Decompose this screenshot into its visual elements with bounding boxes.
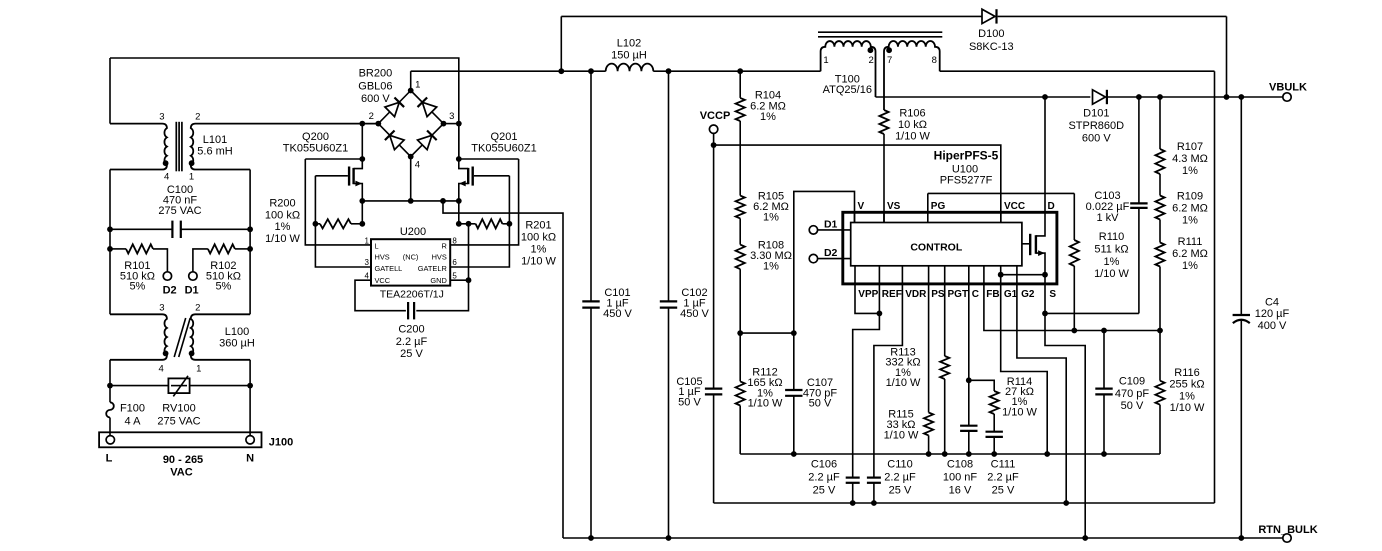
svg-text:BR200: BR200 bbox=[359, 68, 393, 80]
svg-text:J100: J100 bbox=[269, 436, 293, 448]
pin VS bbox=[883, 212, 885, 222]
svg-text:D2: D2 bbox=[824, 247, 838, 259]
svg-text:450 V: 450 V bbox=[680, 308, 709, 320]
svg-text:1: 1 bbox=[415, 80, 420, 91]
svg-text:R106: R106 bbox=[899, 108, 925, 120]
wire RTN_BULK rail bbox=[563, 537, 1283, 539]
resistor R116 bbox=[1159, 331, 1161, 381]
svg-text:D1: D1 bbox=[185, 285, 199, 297]
svg-text:L100: L100 bbox=[225, 326, 249, 338]
svg-text:5%: 5% bbox=[129, 281, 145, 293]
svg-text:3: 3 bbox=[159, 112, 164, 123]
resistor R201 bbox=[458, 201, 460, 224]
svg-text:1%: 1% bbox=[1182, 260, 1198, 272]
wire top-left rail bbox=[110, 58, 459, 159]
svg-text:VAC: VAC bbox=[170, 467, 192, 479]
svg-text:CONTROL: CONTROL bbox=[910, 241, 962, 253]
resistor R110 bbox=[1073, 193, 1075, 240]
svg-text:6: 6 bbox=[452, 258, 457, 267]
bridge rectifier BR200 bbox=[378, 91, 443, 157]
svg-text:PG: PG bbox=[931, 201, 946, 212]
svg-text:2.2 µF: 2.2 µF bbox=[808, 472, 840, 484]
svg-text:R200: R200 bbox=[269, 198, 295, 210]
pin REF bbox=[853, 266, 880, 478]
resistor R106 bbox=[879, 110, 888, 134]
svg-text:4: 4 bbox=[164, 171, 169, 182]
svg-text:1%: 1% bbox=[763, 261, 779, 273]
svg-text:1/10 W: 1/10 W bbox=[1002, 406, 1037, 418]
IC U100 control block bbox=[851, 223, 1022, 266]
wire S snubber row bbox=[1045, 312, 1139, 314]
resistor R114 + capacitor C111 bbox=[969, 380, 994, 391]
svg-text:G2: G2 bbox=[1021, 289, 1035, 300]
svg-text:120 µF: 120 µF bbox=[1255, 308, 1290, 320]
svg-text:1%: 1% bbox=[1182, 215, 1198, 227]
terminal RTN_BULK bbox=[1283, 534, 1291, 542]
svg-text:1: 1 bbox=[823, 55, 828, 66]
wire rail T100 pin8 to right column bbox=[940, 70, 1215, 72]
svg-text:L102: L102 bbox=[617, 38, 641, 50]
wire VCCP rail to VCC pin bbox=[714, 145, 1001, 222]
svg-text:16 V: 16 V bbox=[949, 485, 972, 497]
wire Q200 pin-L column bbox=[305, 159, 371, 245]
wire Q201 gate column to GATELR bbox=[450, 176, 509, 267]
mosfet inside U100 bbox=[1036, 97, 1045, 236]
svg-text:3: 3 bbox=[365, 258, 370, 267]
terminal D2 (left) bbox=[163, 272, 171, 280]
svg-text:8: 8 bbox=[452, 236, 457, 245]
svg-text:50 V: 50 V bbox=[1121, 400, 1144, 412]
capacitor C105 bbox=[713, 145, 715, 389]
svg-text:Q201: Q201 bbox=[491, 131, 518, 143]
wire V pin path bbox=[794, 191, 855, 333]
svg-text:1: 1 bbox=[365, 236, 370, 245]
svg-text:2: 2 bbox=[195, 112, 200, 123]
svg-text:TK055U60Z1: TK055U60Z1 bbox=[471, 143, 536, 155]
svg-text:VCCP: VCCP bbox=[700, 110, 731, 122]
pin VPP bbox=[855, 266, 879, 314]
pin VDR bbox=[874, 266, 903, 478]
inductor L101 bbox=[110, 124, 167, 170]
svg-text:R: R bbox=[441, 242, 446, 251]
svg-text:R116: R116 bbox=[1174, 367, 1199, 379]
svg-text:1%: 1% bbox=[531, 243, 547, 255]
svg-text:TEA2206T/1J: TEA2206T/1J bbox=[380, 289, 444, 301]
resistor R102 bbox=[235, 248, 250, 250]
wire T100 pin2 to VBULK branch bbox=[876, 96, 1091, 98]
pin S bbox=[1045, 284, 1085, 538]
svg-text:25 V: 25 V bbox=[992, 485, 1015, 497]
svg-text:C110: C110 bbox=[887, 459, 912, 471]
svg-text:R201: R201 bbox=[525, 219, 551, 231]
svg-text:4.3 MΩ: 4.3 MΩ bbox=[1172, 153, 1208, 165]
transformer T100 bbox=[821, 41, 876, 97]
svg-text:450 V: 450 V bbox=[603, 308, 632, 320]
wire rectified rail bbox=[411, 70, 606, 72]
svg-text:2: 2 bbox=[369, 111, 374, 122]
wire U200 VCC to C200 bbox=[355, 280, 406, 311]
svg-text:150 µH: 150 µH bbox=[611, 49, 647, 61]
svg-text:400 V: 400 V bbox=[1258, 320, 1287, 332]
svg-text:6.2 MΩ: 6.2 MΩ bbox=[1172, 248, 1208, 260]
svg-text:275 VAC: 275 VAC bbox=[158, 205, 201, 217]
wire left AC branch to L101 pin 3 bbox=[109, 58, 111, 124]
terminal D1 bbox=[809, 226, 817, 234]
svg-text:100 kΩ: 100 kΩ bbox=[521, 231, 556, 243]
inductor L102 bbox=[606, 64, 654, 72]
svg-text:PGT: PGT bbox=[948, 289, 969, 300]
svg-text:470 pF: 470 pF bbox=[1115, 388, 1150, 400]
resistor R104 bbox=[739, 71, 741, 98]
svg-text:5%: 5% bbox=[215, 281, 231, 293]
svg-text:1 kV: 1 kV bbox=[1096, 212, 1119, 224]
svg-text:D: D bbox=[1048, 201, 1055, 212]
svg-text:C109: C109 bbox=[1119, 376, 1145, 388]
capacitor C103 bbox=[1138, 97, 1140, 203]
svg-text:511 kΩ: 511 kΩ bbox=[1094, 243, 1128, 255]
pin V bbox=[854, 212, 856, 222]
svg-text:4 A: 4 A bbox=[125, 415, 142, 427]
svg-text:100 kΩ: 100 kΩ bbox=[265, 209, 300, 221]
svg-text:50 V: 50 V bbox=[678, 397, 701, 409]
pin FB bbox=[984, 266, 1160, 331]
resistor R109 bbox=[1159, 174, 1161, 196]
wire top rail bbox=[561, 15, 981, 17]
svg-text:5.6 mH: 5.6 mH bbox=[197, 146, 233, 158]
capacitor C106 bbox=[846, 477, 860, 479]
svg-text:N: N bbox=[246, 453, 254, 465]
svg-text:VDR: VDR bbox=[905, 289, 927, 300]
svg-text:Q200: Q200 bbox=[302, 131, 329, 143]
svg-text:S: S bbox=[1049, 289, 1056, 300]
svg-text:255 kΩ: 255 kΩ bbox=[1169, 379, 1204, 391]
capacitor C200 bbox=[407, 302, 409, 319]
svg-text:ATQ25/16: ATQ25/16 bbox=[823, 84, 872, 96]
capacitor C108 bbox=[966, 377, 972, 383]
svg-text:90 - 265: 90 - 265 bbox=[163, 454, 203, 466]
transistor Q201 bbox=[456, 156, 462, 162]
svg-text:GATELL: GATELL bbox=[375, 264, 403, 273]
svg-text:L: L bbox=[375, 242, 379, 251]
svg-text:U200: U200 bbox=[400, 226, 426, 238]
node V sense tap bbox=[740, 332, 794, 334]
svg-text:VBULK: VBULK bbox=[1269, 82, 1307, 94]
mid return rail dots bbox=[850, 500, 856, 506]
svg-text:F100: F100 bbox=[120, 403, 145, 415]
svg-text:1/10 W: 1/10 W bbox=[895, 131, 930, 143]
svg-text:C: C bbox=[972, 289, 979, 300]
pin PS bbox=[928, 266, 930, 413]
svg-text:C111: C111 bbox=[991, 459, 1016, 471]
resistor R111 bbox=[1159, 220, 1161, 243]
svg-text:1/10 W: 1/10 W bbox=[1170, 402, 1205, 414]
svg-text:1: 1 bbox=[196, 364, 201, 375]
svg-text:D1: D1 bbox=[824, 218, 838, 230]
svg-text:STPR860D: STPR860D bbox=[1068, 120, 1124, 132]
wire D101 cathode to VBULK terminal bbox=[1108, 96, 1283, 98]
svg-text:L101: L101 bbox=[203, 134, 227, 146]
svg-text:50 V: 50 V bbox=[809, 398, 832, 410]
svg-text:4: 4 bbox=[415, 160, 420, 171]
svg-text:C200: C200 bbox=[398, 324, 424, 336]
svg-text:HiperPFS-5: HiperPFS-5 bbox=[934, 149, 999, 163]
wire BR200 pin4 down bbox=[410, 157, 412, 201]
svg-text:1%: 1% bbox=[275, 221, 291, 233]
svg-text:VCC: VCC bbox=[1004, 201, 1025, 212]
svg-text:RTN_BULK: RTN_BULK bbox=[1258, 524, 1317, 536]
svg-text:1: 1 bbox=[189, 171, 194, 182]
svg-text:6.2 MΩ: 6.2 MΩ bbox=[1172, 203, 1208, 215]
svg-text:2: 2 bbox=[869, 55, 874, 66]
wire U200 GND to C200 bbox=[450, 279, 468, 281]
wire left vertical L101 pin4 to L100 pin3 bbox=[109, 170, 111, 315]
svg-text:VPP: VPP bbox=[858, 289, 878, 300]
IC U100 outline bbox=[843, 212, 1057, 284]
svg-text:100 nF: 100 nF bbox=[943, 472, 978, 484]
svg-text:D100: D100 bbox=[978, 28, 1004, 40]
diode BR200 bottom-right bbox=[418, 135, 432, 149]
svg-text:V: V bbox=[858, 201, 865, 212]
varistor RV100 bbox=[110, 385, 250, 387]
capacitor C110 bbox=[867, 477, 881, 479]
capacitor C101 bbox=[590, 71, 592, 301]
svg-text:2.2 µF: 2.2 µF bbox=[396, 336, 428, 348]
svg-text:1%: 1% bbox=[760, 111, 776, 123]
fuse F100 bbox=[106, 402, 114, 417]
diode BR200 bottom-left bbox=[390, 135, 404, 149]
svg-text:D101: D101 bbox=[1083, 108, 1109, 120]
svg-text:1%: 1% bbox=[1179, 390, 1195, 402]
svg-text:GATELR: GATELR bbox=[418, 264, 447, 273]
svg-text:1%: 1% bbox=[763, 212, 779, 224]
svg-text:600 V: 600 V bbox=[1082, 132, 1111, 144]
diode D101 bbox=[1093, 90, 1106, 104]
diode BR200 top-right bbox=[422, 102, 436, 116]
svg-text:4: 4 bbox=[365, 271, 370, 280]
diode BR200 top-left bbox=[385, 102, 399, 116]
svg-text:1%: 1% bbox=[1182, 165, 1198, 177]
svg-text:(NC): (NC) bbox=[403, 252, 419, 261]
terminal D1 (left) bbox=[189, 272, 197, 280]
svg-text:4: 4 bbox=[159, 364, 164, 375]
svg-text:G1: G1 bbox=[1004, 289, 1018, 300]
svg-text:1/10 W: 1/10 W bbox=[521, 255, 556, 267]
connector J100 bbox=[99, 432, 261, 447]
svg-text:5: 5 bbox=[452, 271, 457, 280]
svg-text:1/10 W: 1/10 W bbox=[884, 429, 919, 441]
wire ground rail (signal) bbox=[740, 453, 1160, 455]
pin C bbox=[968, 266, 970, 426]
svg-text:HVS: HVS bbox=[432, 252, 447, 261]
pin G2 bbox=[1017, 266, 1066, 503]
capacitor C107 bbox=[793, 333, 795, 390]
terminal VCCP bbox=[709, 125, 717, 133]
svg-text:TK055U60Z1: TK055U60Z1 bbox=[283, 143, 348, 155]
svg-text:7: 7 bbox=[887, 55, 892, 66]
svg-text:D2: D2 bbox=[163, 285, 177, 297]
svg-text:C4: C4 bbox=[1265, 296, 1279, 308]
svg-text:REF: REF bbox=[882, 289, 902, 300]
wire Q201 pin-R column bbox=[450, 159, 518, 245]
svg-text:2.2 µF: 2.2 µF bbox=[884, 472, 916, 484]
pin PGT bbox=[944, 266, 946, 356]
svg-text:3: 3 bbox=[159, 303, 164, 314]
svg-text:GBL06: GBL06 bbox=[358, 80, 392, 92]
inductor L100 bbox=[110, 314, 167, 360]
resistor R108 bbox=[739, 218, 741, 244]
node source row bbox=[362, 200, 459, 202]
pin PG bbox=[927, 193, 929, 222]
ground rail dots bbox=[791, 451, 797, 457]
resistor R200 bbox=[313, 221, 319, 227]
wire Q200 gate column to GATELL bbox=[315, 176, 371, 267]
svg-text:RV100: RV100 bbox=[162, 403, 195, 415]
capacitor C100 bbox=[110, 228, 172, 230]
wire AC-side return loop bbox=[714, 502, 1215, 504]
svg-text:VCC: VCC bbox=[375, 276, 391, 285]
svg-text:25 V: 25 V bbox=[889, 485, 912, 497]
svg-text:3: 3 bbox=[449, 111, 454, 122]
resistor R107 bbox=[1159, 97, 1161, 149]
diode D100 bbox=[982, 9, 995, 23]
wire VS column bbox=[883, 134, 885, 223]
svg-text:25 V: 25 V bbox=[813, 485, 836, 497]
wire L100 pin1 down-right bbox=[249, 360, 251, 436]
wire PG pullup row bbox=[928, 192, 1075, 194]
wire top rail right drop to VBULK bbox=[1226, 16, 1228, 97]
wire top rail left riser bbox=[560, 16, 562, 71]
wire BR200 pin3 to right column bbox=[444, 123, 459, 125]
svg-text:PS: PS bbox=[931, 289, 945, 300]
capacitor C109 bbox=[1103, 331, 1105, 389]
capacitor C4 bbox=[1240, 97, 1242, 315]
wire L100 pin4 down-left bbox=[109, 360, 111, 403]
wire BR200 pin1 riser bbox=[410, 71, 412, 90]
svg-text:R111: R111 bbox=[1178, 236, 1203, 248]
svg-text:L: L bbox=[106, 453, 113, 465]
IC U200 bbox=[371, 239, 450, 285]
svg-text:R110: R110 bbox=[1099, 231, 1124, 243]
svg-text:1/10 W: 1/10 W bbox=[886, 377, 921, 389]
svg-text:VS: VS bbox=[887, 201, 901, 212]
svg-text:HVS: HVS bbox=[375, 252, 390, 261]
svg-text:10 kΩ: 10 kΩ bbox=[898, 119, 927, 131]
svg-text:2: 2 bbox=[195, 303, 200, 314]
pin G1 bbox=[1001, 266, 1047, 454]
wire bridge negative jog bbox=[443, 201, 563, 538]
svg-text:1/10 W: 1/10 W bbox=[748, 398, 783, 410]
terminal VBULK bbox=[1283, 93, 1291, 101]
resistor R101 bbox=[110, 248, 126, 250]
terminal D2 bbox=[809, 254, 817, 262]
svg-text:275 VAC: 275 VAC bbox=[157, 415, 200, 427]
svg-text:1/10 W: 1/10 W bbox=[265, 233, 300, 245]
svg-text:S8KC-13: S8KC-13 bbox=[969, 41, 1014, 53]
wire right vertical L101 pin1 to L100 pin2 bbox=[249, 170, 251, 315]
resistor R115 bbox=[924, 413, 933, 436]
svg-text:FB: FB bbox=[986, 289, 999, 300]
resistor R113 bbox=[940, 356, 949, 379]
svg-text:1%: 1% bbox=[1104, 256, 1120, 268]
resistor R105 bbox=[739, 121, 741, 196]
svg-text:600 V: 600 V bbox=[361, 93, 390, 105]
svg-text:R107: R107 bbox=[1177, 141, 1203, 153]
svg-text:25 V: 25 V bbox=[400, 348, 423, 360]
svg-text:2.2 µF: 2.2 µF bbox=[987, 472, 1019, 484]
svg-text:PFS5277F: PFS5277F bbox=[940, 174, 993, 186]
svg-text:GND: GND bbox=[430, 276, 446, 285]
resistor R112 bbox=[739, 333, 741, 381]
svg-text:8: 8 bbox=[932, 55, 937, 66]
svg-text:R109: R109 bbox=[1177, 191, 1203, 203]
node Q200 drain bbox=[359, 121, 365, 127]
svg-text:360 µH: 360 µH bbox=[219, 338, 255, 350]
svg-text:C106: C106 bbox=[811, 459, 837, 471]
transistor Q200 bbox=[305, 158, 362, 160]
svg-text:C108: C108 bbox=[947, 459, 973, 471]
svg-text:1/10 W: 1/10 W bbox=[1094, 268, 1129, 280]
wire G1-S link inside U100 bbox=[1001, 274, 1045, 276]
capacitor C102 bbox=[668, 71, 670, 301]
